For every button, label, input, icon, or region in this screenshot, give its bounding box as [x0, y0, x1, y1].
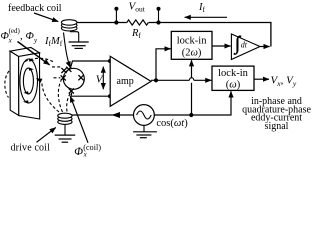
- svg-text:cos(ωt): cos(ωt): [156, 118, 188, 129]
- svg-text:amp: amp: [117, 76, 134, 87]
- wire amp output: [151, 79, 189, 81]
- node reference: [189, 113, 193, 117]
- wire oscillator to reference node: [154, 114, 191, 116]
- arrow Phi x coil: [70, 96, 88, 143]
- flux line coil to loop bottom: [67, 94, 71, 112]
- crossing x upper-left: [61, 68, 66, 73]
- oscillator source: [134, 105, 155, 126]
- flux line return left: [5, 71, 9, 98]
- pickup loop: [63, 68, 84, 89]
- voltage arrow V: [102, 67, 104, 90]
- flux dash into left lower crossing: [54, 77, 61, 79]
- wire lock-in 2omega to integrator: [212, 45, 231, 47]
- flux line to loop left: [52, 66, 62, 68]
- lock-in 2omega box: [171, 31, 212, 59]
- svg-text:(ω): (ω): [226, 79, 241, 90]
- svg-text:Vx, Vy: Vx, Vy: [271, 75, 297, 89]
- svg-text:Φx(ed),Φy: Φx(ed),Φy: [1, 27, 39, 45]
- wire reference to lock-in 2omega: [191, 83, 193, 115]
- wire to lock-in omega: [194, 79, 212, 81]
- svg-text:signal: signal: [265, 121, 289, 132]
- wire oscillator to drive coil: [71, 114, 134, 116]
- node amp output: [154, 78, 158, 82]
- flux line coil to loop left: [58, 81, 62, 112]
- crossing x bottom: [69, 88, 74, 93]
- svg-text:lock-in: lock-in: [177, 36, 207, 47]
- current arrow If: [185, 16, 227, 18]
- svg-text:lock-in: lock-in: [218, 68, 248, 79]
- node amp input top: [108, 59, 112, 63]
- integrator U2: [231, 34, 260, 60]
- svg-text:IfMf: IfMf: [44, 36, 63, 48]
- drive coil: [58, 113, 72, 124]
- wire loop to amp top: [71, 61, 110, 66]
- svg-text:(2ω): (2ω): [182, 48, 202, 59]
- ground oscillator: [143, 125, 145, 131]
- svg-text:Φx(coil): Φx(coil): [74, 143, 101, 158]
- eddy current arrows inner: [29, 67, 34, 70]
- svg-text:drive coil: drive coil: [11, 142, 51, 153]
- flux line sample top: [25, 58, 55, 62]
- wire top feedback rail: [77, 23, 271, 47]
- crossing x left: [61, 75, 66, 80]
- ground drive coil: [64, 124, 66, 135]
- arrow to drive coil: [37, 128, 56, 143]
- crossing x top: [66, 67, 71, 72]
- resistor Rf: [127, 20, 149, 25]
- op-amp amp: [110, 56, 151, 106]
- eddy current loop inner: [23, 68, 33, 94]
- svg-text:feedback coil: feedback coil: [8, 3, 62, 14]
- arrow on drive wire: [112, 112, 121, 118]
- node Vout right terminal: [158, 10, 160, 23]
- svg-text:dt: dt: [241, 41, 248, 50]
- eddy current loop outer: [20, 59, 38, 103]
- crossing x right: [78, 75, 83, 80]
- wire lock-in omega output: [254, 78, 269, 80]
- wire reference to lock-in omega: [191, 91, 231, 115]
- ground feedback: [69, 42, 89, 48]
- svg-text:Rf: Rf: [131, 28, 141, 40]
- svg-text:If: If: [198, 2, 206, 14]
- wire integrator output: [260, 46, 270, 48]
- wire loop to amp bottom: [71, 93, 110, 97]
- arrow to feedback coil: [34, 13, 58, 22]
- lock-in omega box: [212, 66, 254, 90]
- wire hop over reference line: [189, 78, 193, 81]
- wire feedback coil lead to pickup loop: [64, 33, 71, 68]
- arrow Phi ed: [18, 42, 50, 65]
- node amp input bottom: [108, 94, 112, 98]
- svg-text:V: V: [96, 74, 104, 86]
- wire tap to lock-in 2omega: [156, 49, 171, 81]
- svg-text:Vout: Vout: [129, 1, 146, 14]
- sample slab front face: [19, 53, 40, 119]
- sample slab left face: [10, 51, 19, 115]
- wire coil to ground: [70, 32, 79, 42]
- node Vout left terminal: [115, 10, 117, 23]
- flux line drive to sample: [42, 83, 59, 113]
- sample slab top face: [10, 48, 40, 57]
- eddy current arrows outer: [29, 58, 35, 62]
- feedback coil Lf: [61, 20, 77, 31]
